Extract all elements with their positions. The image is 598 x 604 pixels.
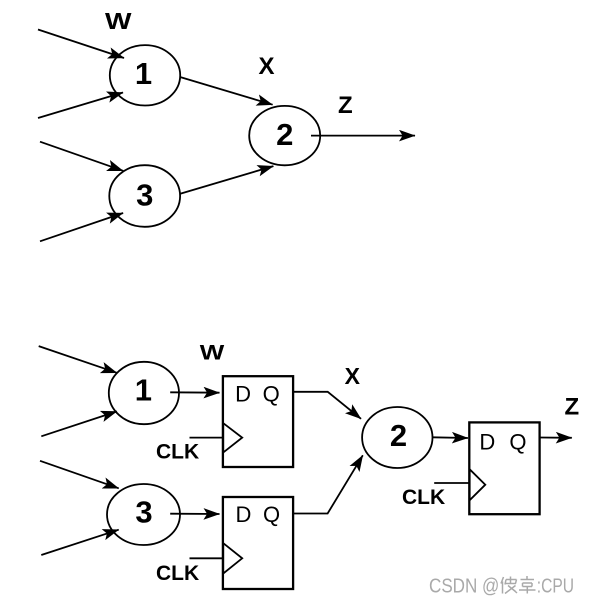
flip-flop U1 box	[223, 376, 293, 467]
wire input lower into node 3	[40, 213, 123, 241]
wire input upper into node 3	[40, 142, 123, 171]
wire input upper into bottom node 3	[40, 461, 119, 489]
svg-text:3: 3	[136, 178, 153, 213]
svg-text:D: D	[236, 502, 252, 527]
svg-text:W: W	[105, 8, 132, 34]
watermark hanzi sha (傻)	[501, 577, 517, 594]
wire CLK into U2	[190, 557, 223, 559]
wire node 2 to flip-flop U3 D input	[433, 436, 468, 439]
node 3 (top combinational circle)	[109, 165, 180, 227]
svg-text:W: W	[200, 341, 225, 364]
wire input upper into bottom node 1	[39, 346, 117, 373]
wire input lower into bottom node 1	[41, 411, 117, 436]
svg-text:Z: Z	[564, 394, 579, 421]
svg-text:Q: Q	[263, 502, 280, 527]
wire CLK into U3	[434, 482, 469, 484]
svg-text:1: 1	[135, 56, 152, 91]
node 3 (bottom circle)	[107, 484, 180, 545]
wire node 3 to flip-flop U2 D input	[170, 513, 219, 515]
watermark CPU text	[537, 575, 574, 597]
wire U2 Q output to bottom node 2	[293, 455, 363, 513]
wire X from node 1 to node 2	[180, 77, 273, 105]
node 2 (top combinational circle)	[249, 106, 320, 165]
wire output Z from node 2	[311, 135, 415, 137]
wire CLK into U1	[190, 437, 223, 439]
node 2 (bottom circle)	[362, 407, 432, 468]
svg-text:X: X	[258, 53, 274, 80]
svg-text:Q: Q	[263, 381, 280, 406]
svg-text:2: 2	[390, 418, 407, 453]
U2 clock triangle	[223, 543, 242, 573]
svg-text:X: X	[345, 363, 361, 389]
wire input W upper into node 1	[38, 30, 124, 59]
wire input lower into node 1	[38, 93, 123, 119]
svg-text:D: D	[479, 430, 495, 455]
svg-text:3: 3	[135, 495, 152, 530]
wire input lower into bottom node 3	[41, 530, 118, 555]
svg-text:2: 2	[276, 117, 293, 152]
node 1 (bottom circle)	[109, 362, 179, 424]
U3 clock triangle	[470, 469, 486, 500]
wire from node 3 to node 2	[180, 166, 273, 194]
svg-text::CPU: :CPU	[537, 575, 574, 597]
flip-flop U3 box	[469, 422, 539, 514]
U1 clock triangle	[223, 423, 242, 452]
svg-text:CSDN @: CSDN @	[429, 574, 499, 597]
flip-flop U2 box	[223, 497, 293, 589]
svg-text:Q: Q	[509, 430, 526, 455]
svg-text:CLK: CLK	[156, 441, 199, 464]
svg-text:CLK: CLK	[402, 486, 445, 509]
svg-text:CLK: CLK	[156, 562, 199, 585]
svg-text:Z: Z	[338, 92, 353, 119]
wire Z output from U3 Q	[540, 437, 572, 439]
node 1 (top combinational circle)	[110, 45, 180, 105]
wire U1 Q output to bottom node 2	[293, 392, 361, 419]
watermark hanzi tong (童)	[519, 576, 536, 594]
svg-text:D: D	[235, 381, 251, 406]
watermark CSDN text	[429, 574, 499, 597]
wire node 1 to flip-flop U1 D input	[170, 391, 219, 393]
svg-text:1: 1	[135, 373, 152, 408]
